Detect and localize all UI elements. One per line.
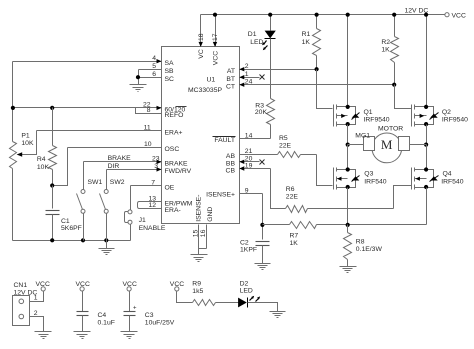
svg-text:MC33035P: MC33035P: [188, 87, 222, 94]
svg-text:BT: BT: [226, 76, 235, 83]
svg-text:CB: CB: [226, 167, 236, 174]
svg-text:23: 23: [152, 156, 160, 163]
svg-text:1K: 1K: [290, 240, 299, 247]
svg-text:GND: GND: [207, 207, 214, 222]
svg-text:IRF540: IRF540: [441, 178, 464, 185]
svg-text:D1: D1: [248, 31, 257, 38]
svg-text:OSC: OSC: [165, 146, 180, 153]
svg-text:21: 21: [245, 148, 253, 155]
svg-text:P1: P1: [21, 133, 30, 140]
svg-text:1: 1: [245, 71, 249, 78]
svg-text:R2: R2: [381, 39, 390, 46]
svg-text:Q2: Q2: [442, 109, 451, 116]
svg-text:R1: R1: [302, 31, 311, 38]
svg-text:OE: OE: [165, 185, 175, 192]
svg-text:LED: LED: [240, 287, 253, 294]
svg-text:ISENSE+: ISENSE+: [206, 192, 235, 199]
svg-text:VCC: VCC: [213, 51, 220, 65]
svg-text:1KPF: 1KPF: [240, 246, 257, 253]
svg-text:0.1uF: 0.1uF: [98, 319, 115, 326]
svg-text:VC: VC: [198, 49, 205, 59]
svg-text:R9: R9: [192, 281, 201, 288]
svg-text:20K: 20K: [255, 109, 268, 116]
svg-text:J1: J1: [139, 217, 146, 224]
svg-text:MG1: MG1: [355, 133, 370, 140]
svg-text:4: 4: [152, 55, 156, 62]
svg-text:+: +: [133, 305, 137, 311]
svg-text:3: 3: [154, 163, 158, 170]
svg-text:C3: C3: [145, 312, 154, 319]
svg-text:CN1: CN1: [14, 282, 28, 289]
svg-text:SA: SA: [165, 60, 175, 67]
svg-text:0.1E/3W: 0.1E/3W: [356, 246, 383, 253]
svg-text:BRAKE: BRAKE: [108, 155, 132, 162]
svg-text:Q3: Q3: [364, 170, 373, 177]
svg-text:LED: LED: [250, 39, 263, 46]
svg-text:12: 12: [148, 202, 156, 209]
svg-text:ERA-: ERA-: [165, 207, 181, 214]
svg-text:17: 17: [212, 33, 219, 41]
svg-text:VCC: VCC: [452, 12, 466, 19]
svg-text:ISENSE-: ISENSE-: [196, 195, 203, 222]
svg-text:1K: 1K: [381, 47, 390, 54]
svg-text:REFO: REFO: [165, 112, 184, 119]
svg-text:SW1: SW1: [88, 179, 103, 186]
svg-text:R7: R7: [290, 233, 299, 240]
svg-text:ERA+: ERA+: [165, 130, 183, 137]
svg-text:9: 9: [245, 187, 249, 194]
svg-text:10K: 10K: [21, 140, 34, 147]
svg-text:R4: R4: [37, 156, 46, 163]
svg-text:10K: 10K: [37, 164, 50, 171]
svg-text:FAULT: FAULT: [214, 137, 235, 144]
svg-text:SW2: SW2: [110, 179, 125, 186]
svg-text:16: 16: [200, 229, 207, 237]
svg-text:1: 1: [34, 295, 38, 302]
svg-text:10: 10: [144, 141, 152, 148]
svg-text:FWD/RV: FWD/RV: [165, 168, 192, 175]
svg-text:18: 18: [198, 33, 205, 41]
svg-text:22E: 22E: [279, 143, 292, 150]
svg-text:1K: 1K: [302, 39, 311, 46]
svg-text:2: 2: [245, 63, 249, 70]
svg-text:IRF9540: IRF9540: [364, 117, 390, 124]
svg-text:R5: R5: [279, 135, 288, 142]
svg-text:SC: SC: [165, 76, 175, 83]
svg-text:Q4: Q4: [443, 170, 452, 177]
svg-text:C4: C4: [98, 312, 107, 319]
svg-text:IRF9540: IRF9540: [442, 117, 468, 124]
svg-text:Q1: Q1: [364, 109, 373, 116]
svg-text:8: 8: [147, 107, 151, 114]
svg-text:22E: 22E: [286, 193, 299, 200]
svg-text:14: 14: [245, 133, 253, 140]
svg-text:MOTOR: MOTOR: [378, 125, 403, 132]
svg-text:24: 24: [245, 79, 253, 86]
svg-text:5K6PF: 5K6PF: [61, 225, 82, 232]
svg-text:AB: AB: [226, 153, 236, 160]
svg-text:M: M: [381, 137, 393, 152]
svg-text:U1: U1: [207, 77, 216, 84]
svg-text:R6: R6: [286, 186, 295, 193]
svg-text:10uF/25V: 10uF/25V: [145, 319, 175, 326]
svg-text:SB: SB: [165, 68, 175, 75]
svg-text:R8: R8: [356, 239, 365, 246]
svg-text:ENABLE: ENABLE: [139, 225, 166, 232]
svg-text:IRF540: IRF540: [364, 178, 387, 185]
svg-text:DIR: DIR: [108, 163, 120, 170]
svg-text:1k5: 1k5: [192, 288, 203, 295]
svg-text:5: 5: [152, 63, 156, 70]
svg-text:15: 15: [193, 229, 200, 237]
svg-text:11: 11: [144, 125, 151, 132]
svg-text:19: 19: [245, 162, 253, 169]
svg-text:CT: CT: [226, 84, 235, 91]
svg-text:7: 7: [151, 180, 155, 187]
svg-text:AT: AT: [227, 68, 235, 75]
svg-text:6: 6: [152, 71, 156, 78]
svg-text:BRAKE: BRAKE: [165, 161, 189, 168]
